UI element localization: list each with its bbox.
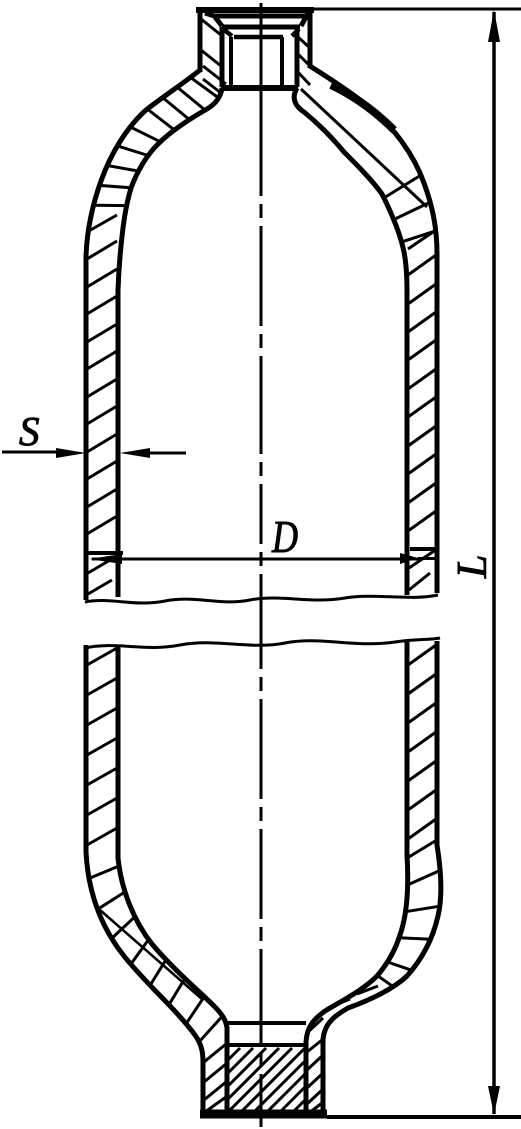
L arrowhead top [488, 10, 500, 42]
L arrowhead bottom [488, 1086, 500, 1115]
svg-text:D: D [271, 512, 298, 562]
S dimension right arrow [146, 452, 186, 455]
bottom extension line [327, 1115, 521, 1119]
hatch left neck wall [201, 19, 221, 93]
neck bore bottom [221, 85, 298, 91]
hatch left bottom dome long stroke [100, 910, 203, 1000]
svg-text:L: L [450, 555, 496, 579]
foot bottom face [200, 1110, 327, 1119]
hatch left bottom dome [89, 866, 222, 1042]
upper break wavy line [85, 595, 438, 603]
neck bore thread major wall right [295, 27, 300, 87]
D dimension line [92, 558, 418, 561]
neck outer wall right [308, 10, 313, 68]
neck bore thread major wall left [220, 27, 225, 87]
top extension line [314, 8, 521, 11]
hatch right shoulder long stroke [301, 89, 427, 207]
lower section inner wall left [118, 645, 227, 1113]
step line left wall [86, 551, 123, 555]
hatch right wall upper [408, 230, 437, 590]
neck top face line [196, 7, 314, 13]
neck bore chamfer ring 3 [223, 29, 299, 37]
hatch right shoulder [384, 175, 436, 242]
hatch left shoulder [94, 66, 227, 206]
hatch left wall upper [87, 215, 117, 594]
L dimension line [492, 12, 496, 1114]
hatch right neck wall [297, 37, 310, 85]
neck bore thread minor wall right [280, 37, 284, 85]
bottom boss plug top line [227, 1043, 306, 1047]
neck bore chamfer ring 1 [205, 13, 309, 17]
lower section inner wall right [306, 641, 408, 1113]
hatch right bottom dome [308, 840, 440, 1032]
shoulder inner profile left [118, 88, 222, 597]
shoulder outer profile right [310, 66, 437, 593]
shoulder outer profile left [86, 70, 200, 600]
bottom boss inner floor line [227, 1021, 306, 1025]
hatch right foot wall [307, 1040, 322, 1113]
neck outer wall left [198, 10, 203, 72]
hatch left foot wall [204, 1044, 226, 1112]
bottom plug cross-hatch [228, 1048, 305, 1112]
lower section outer wall left [86, 645, 203, 1114]
lower section outer wall right [323, 641, 441, 1114]
neck bore chamfer ring 2 [215, 17, 306, 27]
hatch right wall lower [408, 645, 436, 839]
shoulder inner profile right [294, 88, 407, 595]
D arrowhead right [400, 553, 418, 564]
neck bore thread minor wall left [229, 37, 233, 85]
hatch left wall lower [87, 648, 117, 845]
hatch right shoulder thick band [331, 85, 394, 130]
D arrowhead left [89, 554, 122, 564]
step line right wall [410, 547, 438, 551]
lower break wavy line [85, 638, 440, 648]
centerline (axis, dash-dot) [260, 3, 263, 1127]
svg-text:S: S [19, 408, 40, 454]
S dimension left arrow [2, 451, 60, 454]
